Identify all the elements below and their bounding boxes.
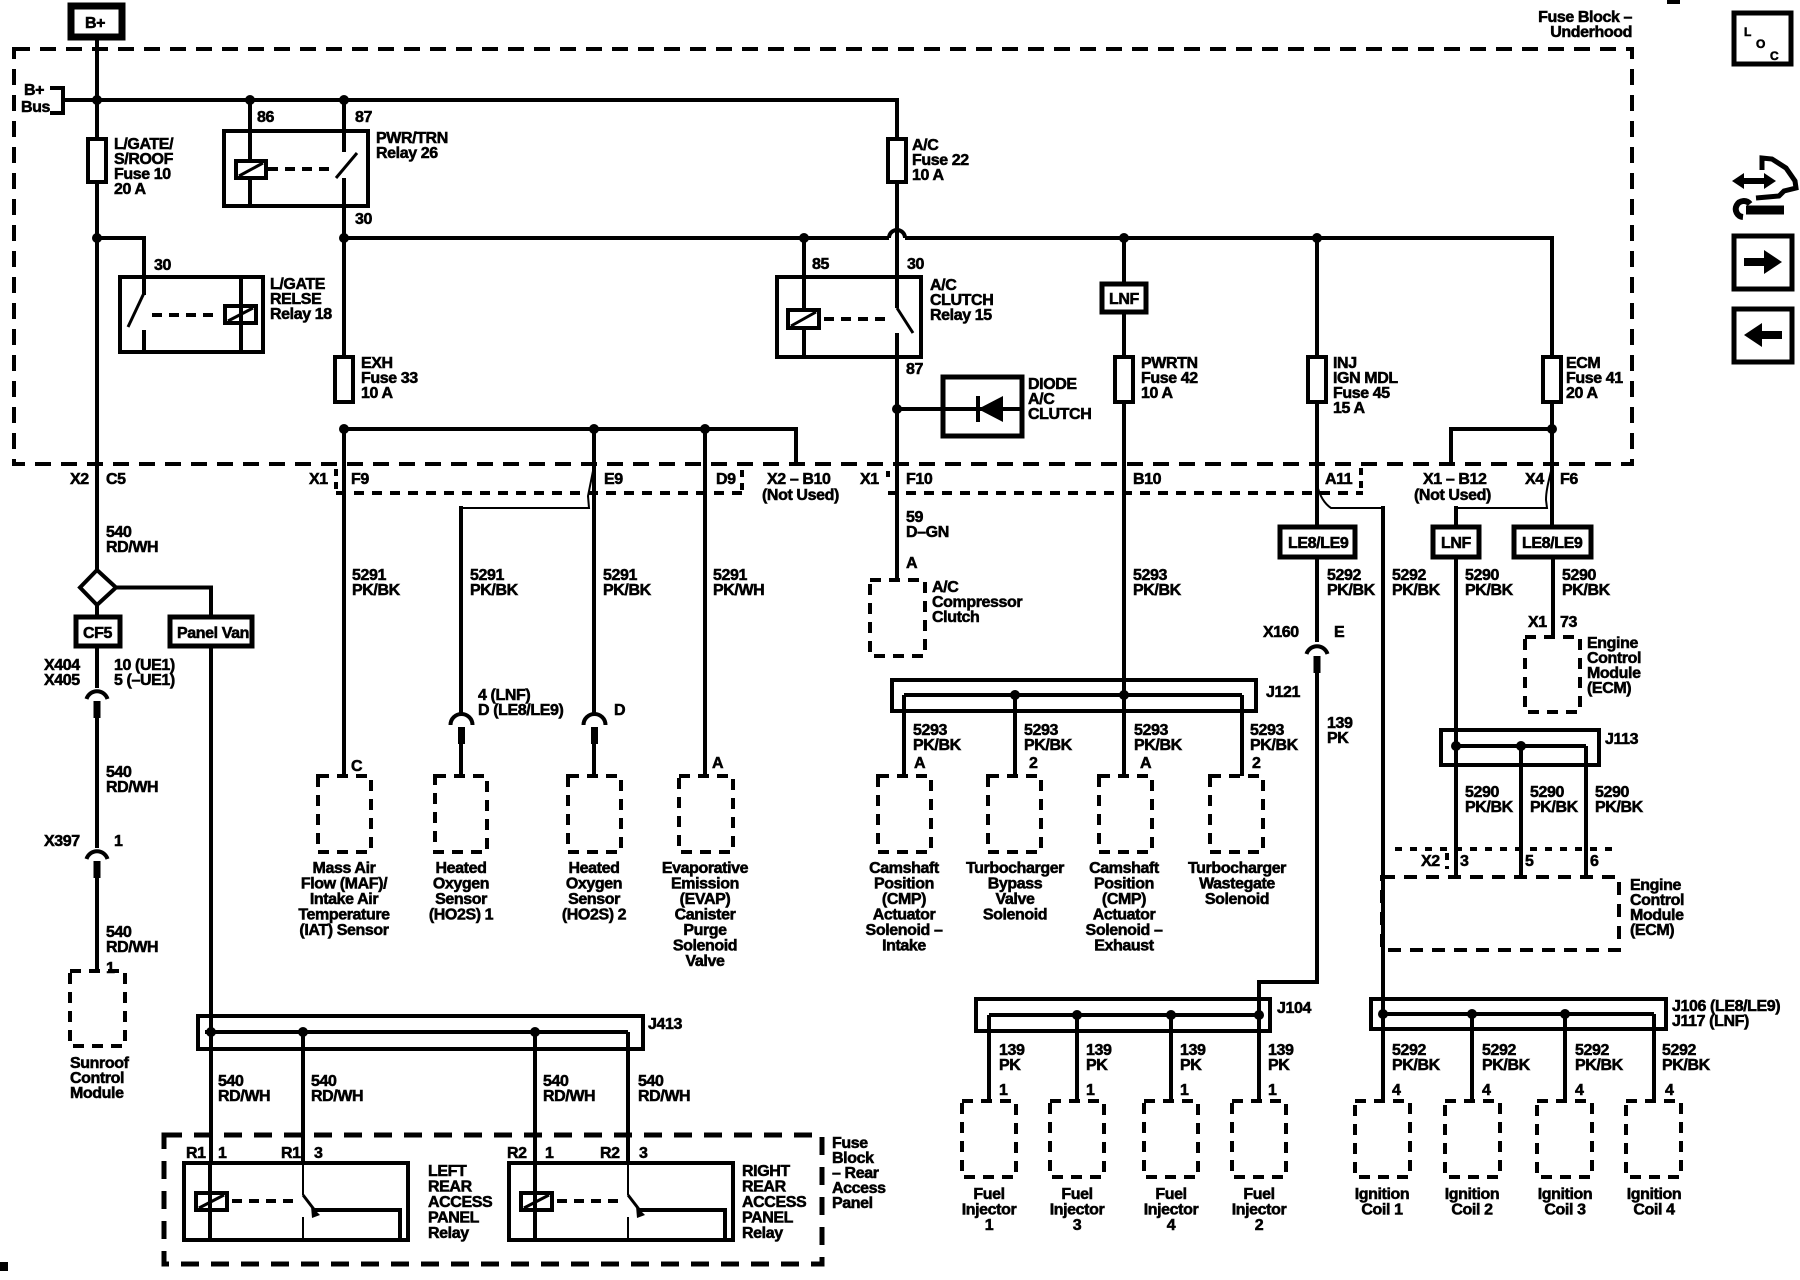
wire fuse41 down + branch X1-B12 bbox=[1550, 402, 1554, 527]
svg-text:B+: B+ bbox=[24, 82, 44, 99]
svg-text:20 A: 20 A bbox=[1566, 385, 1598, 402]
wire HO2S2 feed 5291 bbox=[592, 429, 596, 714]
svg-text:10 A: 10 A bbox=[912, 167, 944, 184]
svg-text:3: 3 bbox=[314, 1145, 323, 1162]
svg-text:PK/BK: PK/BK bbox=[1392, 1057, 1441, 1074]
svg-text:3: 3 bbox=[1073, 1217, 1082, 1234]
junction J106 J117 bbox=[1371, 998, 1780, 1101]
svg-text:PANEL: PANEL bbox=[742, 1210, 794, 1227]
svg-text:Evaporative: Evaporative bbox=[662, 860, 749, 877]
component turbo bypass solenoid bbox=[988, 776, 1041, 852]
svg-text:PK/BK: PK/BK bbox=[1250, 737, 1299, 754]
svg-text:O: O bbox=[1756, 37, 1765, 51]
junction J104 bbox=[976, 999, 1311, 1101]
svg-text:PK/BK: PK/BK bbox=[913, 737, 962, 754]
svg-text:X1: X1 bbox=[860, 471, 879, 488]
svg-text:X1: X1 bbox=[1528, 614, 1547, 631]
svg-text:C5: C5 bbox=[106, 471, 126, 488]
box LE8/LE9 tag left bbox=[1280, 527, 1355, 557]
svg-text:PK/BK: PK/BK bbox=[1465, 582, 1514, 599]
svg-text:REAR: REAR bbox=[428, 1179, 473, 1196]
node B+ bus bracket bbox=[50, 86, 63, 115]
wire F6 jog branch to LNF bbox=[1456, 467, 1552, 527]
svg-text:Canister: Canister bbox=[675, 907, 736, 924]
svg-text:X397: X397 bbox=[44, 833, 80, 850]
component ignition coil 4 bbox=[1626, 1101, 1681, 1177]
svg-text:REAR: REAR bbox=[742, 1179, 787, 1196]
svg-text:RIGHT: RIGHT bbox=[742, 1163, 790, 1180]
node HO2S1 terminal bbox=[451, 714, 473, 725]
svg-text:1: 1 bbox=[1268, 1082, 1277, 1099]
svg-text:PK/BK: PK/BK bbox=[1530, 799, 1579, 816]
box Panel Van tag bbox=[170, 617, 252, 646]
svg-text:30: 30 bbox=[154, 257, 171, 274]
svg-text:Module: Module bbox=[70, 1085, 124, 1102]
wire panel van down to J413 bbox=[209, 646, 213, 1163]
svg-text:1: 1 bbox=[218, 1145, 227, 1162]
svg-text:(HO2S) 1: (HO2S) 1 bbox=[429, 907, 494, 924]
svg-text:E9: E9 bbox=[604, 471, 623, 488]
svg-text:X2 – B10: X2 – B10 bbox=[767, 471, 831, 488]
svg-text:RD/WH: RD/WH bbox=[106, 939, 158, 956]
svg-text:RD/WH: RD/WH bbox=[106, 779, 158, 796]
svg-text:ACCESS: ACCESS bbox=[428, 1194, 493, 1211]
icon back arrow box bbox=[1734, 309, 1792, 362]
svg-text:PK/BK: PK/BK bbox=[1562, 582, 1611, 599]
component EVAP valve bbox=[679, 776, 733, 852]
svg-text:Solenoid –: Solenoid – bbox=[866, 922, 943, 939]
B+ power symbol bbox=[71, 6, 122, 37]
svg-text:LE8/LE9: LE8/LE9 bbox=[1522, 535, 1583, 552]
svg-text:RD/WH: RD/WH bbox=[638, 1088, 690, 1105]
svg-text:86: 86 bbox=[257, 109, 274, 126]
svg-text:X405: X405 bbox=[44, 672, 80, 689]
component HO2S1 bbox=[435, 776, 487, 852]
component fuse block rear access panel dashed box bbox=[164, 1135, 822, 1264]
svg-text:3: 3 bbox=[1460, 853, 1469, 870]
svg-text:73: 73 bbox=[1560, 614, 1577, 631]
svg-text:4: 4 bbox=[1167, 1217, 1176, 1234]
component CMP exhaust solenoid bbox=[1099, 776, 1152, 852]
svg-text:Coil 3: Coil 3 bbox=[1544, 1202, 1586, 1219]
svg-text:1: 1 bbox=[999, 1082, 1008, 1099]
svg-text:Ignition: Ignition bbox=[1627, 1186, 1682, 1203]
svg-text:Fuel: Fuel bbox=[1243, 1186, 1274, 1203]
icon forward arrow box bbox=[1734, 236, 1792, 289]
svg-text:2: 2 bbox=[1255, 1217, 1264, 1234]
wire fuse10 down bbox=[95, 182, 99, 570]
svg-text:Coil 1: Coil 1 bbox=[1361, 1202, 1403, 1219]
svg-text:PK: PK bbox=[999, 1057, 1021, 1074]
svg-text:C: C bbox=[1770, 49, 1779, 63]
svg-text:Clutch: Clutch bbox=[932, 609, 979, 626]
svg-text:Fuel: Fuel bbox=[973, 1186, 1004, 1203]
relay L/GATE RELSE Relay 18 bbox=[120, 276, 332, 352]
svg-text:Coil 2: Coil 2 bbox=[1451, 1202, 1493, 1219]
svg-text:Fuel: Fuel bbox=[1155, 1186, 1186, 1203]
wire B+ bus horizontal bbox=[63, 100, 897, 139]
svg-text:Intake: Intake bbox=[882, 938, 926, 955]
svg-text:Position: Position bbox=[1094, 876, 1154, 893]
page corner marks bbox=[0, 1262, 8, 1271]
svg-text:Relay 15: Relay 15 bbox=[930, 307, 992, 324]
svg-text:1: 1 bbox=[114, 833, 123, 850]
wire A/C fuse down to relay 15 bbox=[895, 182, 899, 277]
svg-text:J121: J121 bbox=[1266, 684, 1300, 701]
svg-text:4: 4 bbox=[1482, 1082, 1491, 1099]
component fuel injector 3 bbox=[1050, 1101, 1104, 1177]
svg-text:PK/BK: PK/BK bbox=[1133, 582, 1182, 599]
svg-text:Mass Air: Mass Air bbox=[313, 860, 376, 877]
component A/C compressor clutch box bbox=[870, 580, 925, 656]
box LNF tag right bbox=[1433, 527, 1479, 557]
svg-text:PK/BK: PK/BK bbox=[1134, 737, 1183, 754]
svg-text:87: 87 bbox=[906, 361, 923, 378]
svg-text:ACCESS: ACCESS bbox=[742, 1194, 807, 1211]
svg-text:Wastegate: Wastegate bbox=[1199, 876, 1275, 893]
fuse ECM Fuse 41 20A bbox=[1543, 357, 1561, 402]
svg-text:Actuator: Actuator bbox=[873, 907, 936, 924]
svg-text:J104: J104 bbox=[1277, 1000, 1311, 1017]
text sensor row labels bbox=[298, 860, 1286, 970]
svg-text:PK/BK: PK/BK bbox=[1327, 582, 1376, 599]
component fuel injector 1 bbox=[962, 1101, 1016, 1177]
svg-text:PANEL: PANEL bbox=[428, 1210, 480, 1227]
svg-text:Oxygen: Oxygen bbox=[566, 876, 622, 893]
svg-text:Injector: Injector bbox=[1144, 1202, 1199, 1219]
wire fuse42 down to J121 bbox=[1122, 402, 1126, 695]
svg-text:4: 4 bbox=[1392, 1082, 1401, 1099]
svg-text:(CMP): (CMP) bbox=[1102, 891, 1146, 908]
svg-text:RD/WH: RD/WH bbox=[218, 1088, 270, 1105]
svg-text:Sensor: Sensor bbox=[568, 891, 620, 908]
box CF5 tag bbox=[76, 617, 120, 646]
wire 139 PK to J104 bbox=[1259, 673, 1317, 1014]
component ignition coil 3 bbox=[1537, 1101, 1592, 1177]
svg-text:A: A bbox=[1140, 755, 1152, 772]
svg-text:Emission: Emission bbox=[671, 876, 739, 893]
svg-text:E: E bbox=[1334, 624, 1345, 641]
wire HO2S1 jog branch bbox=[463, 466, 594, 508]
svg-text:Bus: Bus bbox=[21, 99, 51, 116]
svg-text:Coil 4: Coil 4 bbox=[1633, 1202, 1675, 1219]
wire A11 jog branch 5292 bbox=[1317, 485, 1383, 508]
svg-text:LNF: LNF bbox=[1109, 291, 1140, 308]
svg-text:87: 87 bbox=[355, 109, 372, 126]
svg-text:(CMP): (CMP) bbox=[882, 891, 926, 908]
svg-text:Relay: Relay bbox=[428, 1225, 469, 1242]
svg-text:Panel Van: Panel Van bbox=[177, 625, 249, 642]
svg-text:PK/BK: PK/BK bbox=[603, 582, 652, 599]
svg-text:Purge: Purge bbox=[683, 922, 727, 939]
node junction dot bus/B+ bbox=[92, 95, 102, 105]
node splice diamond bbox=[80, 570, 116, 605]
svg-text:Bypass: Bypass bbox=[988, 876, 1043, 893]
component ECM X2 dashed box bbox=[1382, 877, 1619, 950]
svg-text:R1: R1 bbox=[281, 1145, 301, 1162]
wire B+ down to fuse 10 bbox=[95, 37, 99, 139]
svg-text:CLUTCH: CLUTCH bbox=[1028, 406, 1091, 423]
svg-text:Injector: Injector bbox=[1232, 1202, 1287, 1219]
fuse L/GATE S/ROOF Fuse 10 20A bbox=[88, 139, 106, 182]
svg-text:3: 3 bbox=[639, 1145, 648, 1162]
svg-text:F9: F9 bbox=[351, 471, 369, 488]
svg-text:X2: X2 bbox=[1421, 853, 1440, 870]
svg-text:C: C bbox=[351, 758, 363, 775]
svg-text:D–GN: D–GN bbox=[906, 524, 949, 541]
wire EVAP feed 5291 PK/WH bbox=[703, 429, 707, 776]
svg-text:X1: X1 bbox=[309, 471, 328, 488]
svg-text:L: L bbox=[1744, 25, 1751, 39]
svg-text:Heated: Heated bbox=[569, 860, 620, 877]
icon LOC box bbox=[1734, 13, 1791, 64]
svg-text:(EVAP): (EVAP) bbox=[680, 891, 731, 908]
svg-text:D: D bbox=[614, 702, 625, 719]
junction J121 bbox=[892, 680, 1300, 776]
junction J413 bbox=[198, 1016, 682, 1163]
node junction dot bus/pin86 bbox=[245, 95, 255, 105]
svg-text:30: 30 bbox=[355, 211, 372, 228]
svg-text:(HO2S) 2: (HO2S) 2 bbox=[562, 907, 627, 924]
svg-text:85: 85 bbox=[812, 256, 829, 273]
component MAF/IAT sensor bbox=[318, 776, 371, 852]
svg-text:CF5: CF5 bbox=[83, 625, 113, 642]
svg-text:5: 5 bbox=[1525, 853, 1534, 870]
svg-text:X1 – B12: X1 – B12 bbox=[1423, 471, 1487, 488]
svg-text:R2: R2 bbox=[507, 1145, 527, 1162]
svg-text:(ECM): (ECM) bbox=[1630, 922, 1674, 939]
svg-text:Camshaft: Camshaft bbox=[1089, 860, 1160, 877]
svg-text:Flow (MAF)/: Flow (MAF)/ bbox=[301, 876, 388, 893]
svg-text:X2: X2 bbox=[70, 471, 89, 488]
box LE8/LE9 tag right bbox=[1514, 527, 1591, 557]
svg-text:Solenoid –: Solenoid – bbox=[1086, 922, 1163, 939]
svg-text:4: 4 bbox=[1575, 1082, 1584, 1099]
svg-text:F10: F10 bbox=[906, 471, 933, 488]
svg-text:5 (–UE1): 5 (–UE1) bbox=[114, 672, 175, 689]
svg-text:Solenoid: Solenoid bbox=[983, 907, 1047, 924]
svg-text:Turbocharger: Turbocharger bbox=[966, 860, 1064, 877]
svg-text:B+: B+ bbox=[85, 15, 105, 32]
connector row dotted line bbox=[336, 491, 742, 495]
svg-text:RD/WH: RD/WH bbox=[311, 1088, 363, 1105]
svg-text:1: 1 bbox=[985, 1217, 994, 1234]
svg-text:Fuel: Fuel bbox=[1061, 1186, 1092, 1203]
node HO2S2 terminal bbox=[584, 714, 606, 725]
svg-text:PK/BK: PK/BK bbox=[1465, 799, 1514, 816]
relay A/C CLUTCH Relay 15 bbox=[777, 238, 993, 378]
component turbo wastegate solenoid bbox=[1210, 776, 1263, 852]
svg-text:PK/BK: PK/BK bbox=[1575, 1057, 1624, 1074]
svg-text:Relay 26: Relay 26 bbox=[376, 145, 438, 162]
box LNF engine tag bbox=[1102, 284, 1146, 312]
node junction dot bus/pin87 bbox=[339, 95, 349, 105]
svg-text:LE8/LE9: LE8/LE9 bbox=[1288, 535, 1349, 552]
wire fuse33 stem bbox=[342, 238, 346, 357]
icon route arrows bbox=[1732, 158, 1796, 217]
svg-text:A11: A11 bbox=[1325, 471, 1353, 488]
svg-text:30: 30 bbox=[907, 256, 924, 273]
fuse INJ IGN MDL Fuse 45 15A bbox=[1315, 238, 1319, 357]
svg-text:J413: J413 bbox=[648, 1016, 682, 1033]
svg-text:Temperature: Temperature bbox=[298, 907, 390, 924]
svg-text:PK/BK: PK/BK bbox=[470, 582, 519, 599]
svg-text:PK/BK: PK/BK bbox=[1392, 582, 1441, 599]
svg-text:Turbocharger: Turbocharger bbox=[1188, 860, 1286, 877]
relay right rear access panel bbox=[509, 1163, 807, 1242]
wire LE8/LE9 left down to X160 bbox=[1315, 557, 1319, 642]
component HO2S2 bbox=[568, 776, 621, 852]
svg-text:RD/WH: RD/WH bbox=[543, 1088, 595, 1105]
svg-text:D9: D9 bbox=[716, 471, 736, 488]
svg-text:X4: X4 bbox=[1525, 471, 1544, 488]
component CMP intake solenoid bbox=[878, 776, 931, 852]
component ignition coil 2 bbox=[1445, 1101, 1500, 1177]
svg-text:PK/BK: PK/BK bbox=[352, 582, 401, 599]
svg-text:Injector: Injector bbox=[1050, 1202, 1105, 1219]
component ignition coil 1 bbox=[1355, 1101, 1410, 1177]
component fuel injector 4 bbox=[1144, 1101, 1198, 1177]
relay left rear access panel bbox=[184, 1163, 493, 1242]
svg-text:Solenoid: Solenoid bbox=[673, 938, 737, 955]
svg-text:1: 1 bbox=[1086, 1082, 1095, 1099]
svg-text:Injector: Injector bbox=[962, 1202, 1017, 1219]
wire branch to relay 18 bbox=[92, 233, 102, 243]
svg-text:PK/BK: PK/BK bbox=[1595, 799, 1644, 816]
svg-text:PK/BK: PK/BK bbox=[1024, 737, 1073, 754]
svg-text:(Not Used): (Not Used) bbox=[762, 487, 839, 504]
fuse PWRTN Fuse 42 10A bbox=[1115, 357, 1133, 402]
junction J113 bbox=[1441, 730, 1639, 877]
svg-text:2: 2 bbox=[1029, 755, 1038, 772]
wire CF5 down bbox=[95, 646, 99, 688]
svg-text:Solenoid: Solenoid bbox=[1205, 891, 1269, 908]
svg-text:PK: PK bbox=[1086, 1057, 1108, 1074]
wire PWRTN column bbox=[1122, 238, 1126, 357]
svg-text:PK/BK: PK/BK bbox=[1482, 1057, 1531, 1074]
fuse block underhood dashed border bbox=[14, 49, 1632, 464]
svg-text:Sensor: Sensor bbox=[435, 891, 487, 908]
svg-text:Valve: Valve bbox=[686, 953, 725, 970]
svg-text:Underhood: Underhood bbox=[1550, 24, 1632, 41]
svg-text:Intake Air: Intake Air bbox=[310, 891, 378, 908]
svg-text:Ignition: Ignition bbox=[1538, 1186, 1593, 1203]
svg-text:Panel: Panel bbox=[832, 1195, 873, 1212]
svg-text:J117 (LNF): J117 (LNF) bbox=[1672, 1013, 1749, 1030]
fuse EXH Fuse 33 10A bbox=[335, 357, 353, 402]
svg-text:R2: R2 bbox=[600, 1145, 620, 1162]
wire MAF feed 5291 bbox=[342, 429, 346, 776]
svg-text:Exhaust: Exhaust bbox=[1094, 938, 1155, 955]
wire fuse45 down bbox=[1315, 402, 1319, 527]
wire 5290 LE8 down to ECM X1 bbox=[1551, 557, 1555, 637]
svg-text:Camshaft: Camshaft bbox=[869, 860, 940, 877]
svg-text:1: 1 bbox=[1180, 1082, 1189, 1099]
svg-text:Ignition: Ignition bbox=[1355, 1186, 1410, 1203]
svg-text:(IAT) Sensor: (IAT) Sensor bbox=[299, 922, 388, 939]
fuse A/C Fuse 22 10A bbox=[888, 139, 906, 182]
relay PWR/TRN Relay 26 bbox=[224, 100, 448, 238]
svg-text:2: 2 bbox=[1252, 755, 1261, 772]
svg-text:A: A bbox=[906, 555, 918, 572]
svg-text:LEFT: LEFT bbox=[428, 1163, 467, 1180]
wire 30 bus bbox=[344, 238, 1552, 357]
wire relay15 pin 87 down bbox=[895, 357, 899, 580]
svg-text:LNF: LNF bbox=[1441, 535, 1472, 552]
svg-text:PK/BK: PK/BK bbox=[1662, 1057, 1711, 1074]
svg-text:RD/WH: RD/WH bbox=[106, 539, 158, 556]
component ECM X1 dashed box bbox=[1525, 637, 1580, 712]
svg-text:D (LE8/LE9): D (LE8/LE9) bbox=[478, 702, 563, 719]
svg-text:1: 1 bbox=[106, 960, 115, 977]
svg-text:Ignition: Ignition bbox=[1445, 1186, 1500, 1203]
svg-text:Relay: Relay bbox=[742, 1225, 783, 1242]
svg-text:4: 4 bbox=[1665, 1082, 1674, 1099]
svg-text:Oxygen: Oxygen bbox=[433, 876, 489, 893]
svg-text:A: A bbox=[914, 755, 926, 772]
svg-text:(ECM): (ECM) bbox=[1587, 680, 1631, 697]
svg-text:Valve: Valve bbox=[996, 891, 1035, 908]
svg-text:A: A bbox=[712, 755, 724, 772]
svg-text:F6: F6 bbox=[1560, 471, 1578, 488]
diode A/C clutch bbox=[892, 376, 1091, 436]
svg-text:15 A: 15 A bbox=[1333, 400, 1365, 417]
wire hop over bus at A/C fuse wire bbox=[889, 230, 905, 238]
svg-text:Position: Position bbox=[874, 876, 934, 893]
svg-text:Heated: Heated bbox=[436, 860, 487, 877]
component sunroof control module bbox=[70, 971, 125, 1046]
wire EXH fuse branch bus bbox=[339, 424, 349, 434]
component fuel injector 2 bbox=[1232, 1101, 1286, 1177]
svg-text:(Not Used): (Not Used) bbox=[1414, 487, 1491, 504]
wire 5290 LNF down to J113 bbox=[1454, 557, 1458, 746]
svg-text:6: 6 bbox=[1590, 853, 1599, 870]
svg-text:X160: X160 bbox=[1263, 624, 1299, 641]
svg-text:PK: PK bbox=[1268, 1057, 1290, 1074]
svg-text:PK/WH: PK/WH bbox=[713, 582, 764, 599]
svg-text:Relay 18: Relay 18 bbox=[270, 306, 332, 323]
svg-text:PK: PK bbox=[1180, 1057, 1202, 1074]
svg-text:J113: J113 bbox=[1605, 731, 1639, 748]
svg-text:B10: B10 bbox=[1133, 471, 1162, 488]
node ECM X2 connector row bbox=[1395, 847, 1612, 851]
svg-text:1: 1 bbox=[545, 1145, 554, 1162]
svg-text:R1: R1 bbox=[186, 1145, 206, 1162]
svg-text:PK: PK bbox=[1327, 730, 1349, 747]
svg-text:Actuator: Actuator bbox=[1093, 907, 1156, 924]
svg-text:10 A: 10 A bbox=[361, 385, 393, 402]
svg-text:10 A: 10 A bbox=[1141, 385, 1173, 402]
svg-text:20 A: 20 A bbox=[114, 181, 146, 198]
